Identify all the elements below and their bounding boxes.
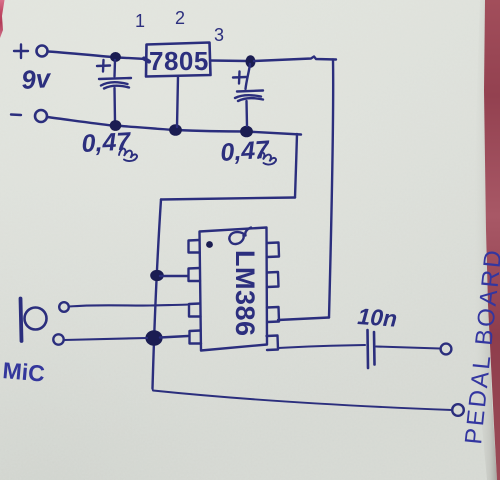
wire: node A to 7805 pin1 bbox=[118, 58, 146, 60]
microphone body circle bbox=[25, 308, 47, 330]
svg-text:7805: 7805 bbox=[149, 46, 209, 76]
7805 pin2 ground stem bbox=[177, 77, 178, 128]
wire: node F to LM386 pin 2 bbox=[160, 275, 188, 277]
capacitor C2 curved plate bbox=[235, 95, 263, 101]
node E junction dot bbox=[246, 55, 256, 67]
wire: 7805 pin3 to node E bbox=[211, 59, 248, 62]
capacitor C2 bottom stem bbox=[245, 101, 248, 126]
node D junction dot bbox=[240, 126, 253, 138]
capacitor C1 bottom stem bbox=[113, 88, 116, 122]
LM386 right pin 6 bbox=[267, 307, 279, 322]
wire: horizontal into LM386 right pin 3 bbox=[278, 318, 329, 321]
battery plus sign bbox=[14, 45, 28, 59]
LM386 right pin 5 bbox=[267, 336, 279, 351]
battery + terminal bbox=[37, 46, 48, 57]
pink surface sliver top-left bbox=[0, 0, 5, 38]
svg-text:3: 3 bbox=[214, 25, 224, 45]
node G junction dot (rail, mic-, pin4) bbox=[145, 330, 162, 346]
wire: mic + to LM386 pin 3 bbox=[69, 305, 188, 307]
microphone bar bbox=[21, 299, 22, 342]
wire: left rail vertical bbox=[153, 200, 162, 389]
output + terminal bbox=[441, 344, 452, 355]
wire: node E to top-right corner bbox=[254, 57, 336, 62]
svg-text:MiC: MiC bbox=[2, 357, 46, 387]
svg-text:10n: 10n bbox=[357, 303, 398, 332]
wire: C3 to output + terminal bbox=[376, 347, 440, 349]
wire: node G to LM386 pin 4 bbox=[160, 336, 188, 338]
svg-text:LM386: LM386 bbox=[230, 250, 260, 337]
wire: right vertical drop to pin 6 level bbox=[329, 60, 333, 318]
wire: ground loop right corner down bbox=[295, 134, 297, 198]
svg-text:2: 2 bbox=[175, 8, 185, 28]
wire: mic - to node G bbox=[64, 338, 147, 340]
ground rail: node D to right corner bbox=[246, 132, 301, 135]
LM386 left pin 4 bbox=[190, 331, 202, 344]
capacitor C2 plus sign bbox=[233, 72, 246, 84]
wire: ground loop horizontal to left rail bbox=[161, 198, 295, 200]
capacitor C2 0,47u: top stem from node E bbox=[246, 64, 251, 89]
node F junction dot (rail to pin2 wire) bbox=[150, 270, 164, 281]
svg-text:1: 1 bbox=[135, 11, 145, 31]
wire: - terminal to ground rail bbox=[47, 117, 112, 126]
mic + terminal bbox=[59, 302, 69, 312]
regulator U1 7805 box bbox=[146, 43, 211, 77]
LM386 pin1 index dot bbox=[206, 241, 213, 248]
capacitor C1 curved plate bbox=[101, 82, 129, 88]
battery minus sign bbox=[11, 113, 21, 116]
wire: LM386 pin 5 to C3 bbox=[278, 345, 365, 348]
label C2 micro squiggle bbox=[258, 153, 276, 165]
wire: + terminal to node A bbox=[48, 52, 112, 58]
capacitor C3 10n left plate bbox=[366, 330, 369, 368]
capacitor C2 top plate bbox=[237, 91, 263, 92]
capacitor C1 top plate bbox=[99, 78, 131, 79]
ground rail: node C to node D bbox=[175, 130, 246, 132]
LM386 pen loop glyph bbox=[229, 228, 251, 245]
capacitor C1 plus sign bbox=[97, 60, 110, 72]
LM386 left pin 1 bbox=[189, 240, 200, 253]
node C junction dot bbox=[169, 124, 182, 136]
LM386 right pin 7 bbox=[267, 272, 279, 287]
wire blob at 7805 pin1 entry bbox=[144, 59, 149, 62]
output - terminal bbox=[452, 404, 464, 416]
capacitor C1 0,47u: top stem bbox=[113, 60, 116, 77]
battery - terminal bbox=[35, 110, 47, 122]
svg-text:9v: 9v bbox=[20, 63, 52, 95]
LM386 right pin 8 bbox=[267, 243, 279, 258]
wire: bottom output run to pedal board - bbox=[153, 389, 453, 411]
LM386 left pin 2 bbox=[189, 268, 201, 281]
LM386 IC body bbox=[200, 228, 268, 351]
ground rail: node B to node C bbox=[115, 126, 175, 131]
LM386 left pin 3 bbox=[189, 304, 201, 317]
capacitor C3 10n right plate bbox=[373, 332, 376, 365]
maroon carpet surface along right edge bbox=[484, 0, 500, 480]
node B junction dot bbox=[110, 120, 122, 131]
right edge shadow of paper bbox=[473, 0, 497, 480]
mic - terminal bbox=[53, 334, 63, 344]
label C1 micro squiggle bbox=[119, 149, 137, 161]
node A junction dot bbox=[110, 52, 121, 62]
